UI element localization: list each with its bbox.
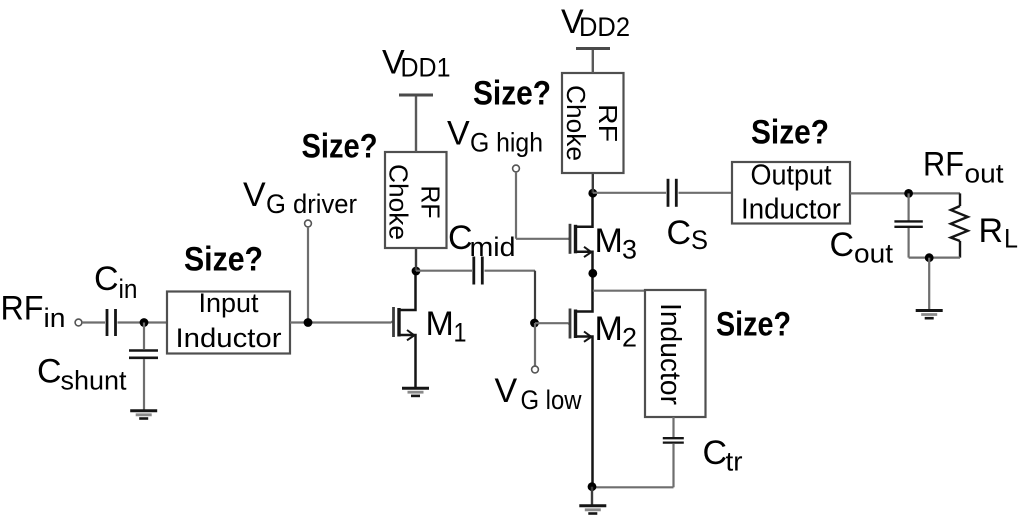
- wire Cmid to bend: [485, 270, 536, 272]
- svg-text:M: M: [595, 222, 623, 260]
- svg-text:R: R: [979, 212, 1004, 250]
- svg-text:mid: mid: [470, 232, 516, 262]
- label M1: [426, 305, 467, 348]
- wire Cshunt to ground: [143, 359, 145, 411]
- svg-text:G high: G high: [470, 127, 543, 157]
- wire Ctr to ground node: [592, 486, 674, 488]
- wire VG high down: [515, 172, 517, 239]
- svg-text:Choke: Choke: [384, 164, 414, 240]
- svg-text:V: V: [495, 372, 518, 410]
- wire output bottom rail: [909, 257, 960, 259]
- node input junction: [140, 318, 149, 327]
- label Cin: [94, 260, 138, 304]
- svg-text:V: V: [243, 176, 266, 214]
- wire Inductor to Ctr: [672, 417, 674, 437]
- label M2: [595, 310, 638, 353]
- wire VG driver: [307, 227, 309, 323]
- svg-text:2: 2: [622, 323, 637, 353]
- wire RF choke 2 to VDD2: [592, 49, 594, 73]
- wire Output Inductor to RL: [850, 192, 960, 194]
- wire RFin to Cin: [82, 321, 105, 323]
- ground M1: [402, 388, 429, 396]
- svg-text:RF: RF: [593, 104, 623, 142]
- capacitor CS: [668, 179, 676, 207]
- wire M1 drain to Cmid: [416, 270, 472, 272]
- wire VG high to M3 gate: [516, 238, 568, 240]
- node VG driver junction: [304, 318, 313, 327]
- svg-text:C: C: [667, 214, 692, 252]
- wire Cshunt top: [143, 323, 145, 350]
- box Output Inductor: [732, 160, 850, 226]
- svg-text:S: S: [691, 225, 708, 255]
- terminal VG low: [532, 366, 539, 373]
- svg-text:Choke: Choke: [561, 85, 591, 161]
- svg-text:DD1: DD1: [401, 53, 451, 83]
- capacitor Ctr: [663, 438, 684, 442]
- label CS: [667, 214, 709, 255]
- svg-text:Size?: Size?: [716, 306, 791, 344]
- label RL: [979, 212, 1019, 254]
- svg-text:in: in: [119, 274, 138, 304]
- box Inductor: [645, 290, 706, 417]
- svg-text:DD2: DD2: [579, 12, 630, 42]
- svg-text:out: out: [965, 159, 1005, 189]
- node bottom ground junction: [588, 482, 597, 491]
- svg-text:Inductor: Inductor: [741, 194, 841, 226]
- svg-text:shunt: shunt: [61, 366, 127, 396]
- label Size? inductor: [716, 306, 791, 344]
- label Size? output inductor: [751, 114, 829, 152]
- capacitor Cshunt: [129, 351, 158, 358]
- capacitor Cmid: [474, 257, 483, 285]
- label VG driver: [243, 176, 357, 219]
- power VDD2 bar: [576, 47, 610, 50]
- svg-text:Inductor: Inductor: [176, 323, 282, 353]
- svg-text:Output: Output: [751, 160, 832, 192]
- wire Ctr down: [672, 444, 674, 487]
- svg-text:G driver: G driver: [266, 189, 357, 219]
- node output ground junction: [925, 253, 934, 262]
- label M3: [595, 222, 638, 265]
- wire M2 drain to Inductor box: [593, 290, 645, 292]
- svg-text:Inductor: Inductor: [654, 303, 686, 405]
- transistor M2: [568, 273, 593, 487]
- capacitor Cout: [894, 221, 922, 226]
- box RF Choke 1: [384, 152, 447, 248]
- svg-text:out: out: [854, 239, 894, 269]
- svg-text:Size?: Size?: [473, 74, 551, 112]
- label VDD1: [382, 44, 451, 83]
- terminal VG driver: [305, 220, 312, 227]
- svg-text:V: V: [447, 115, 470, 153]
- label Ctr: [703, 434, 743, 477]
- wire M1 drain to RF choke 1: [415, 248, 417, 271]
- svg-text:Size?: Size?: [302, 128, 378, 166]
- transistor M3: [568, 193, 593, 273]
- label VG high: [447, 115, 543, 158]
- svg-text:1: 1: [454, 318, 467, 348]
- svg-text:C: C: [94, 260, 119, 298]
- node M3 source M2 drain: [588, 269, 597, 278]
- box Input Inductor: [167, 288, 290, 353]
- svg-text:RF: RF: [923, 146, 964, 184]
- wire output ground stub: [928, 258, 930, 311]
- box RF Choke 2: [561, 73, 624, 173]
- label Cshunt: [37, 353, 127, 396]
- label Cout: [830, 226, 894, 269]
- wire CS to Output Inductor: [679, 192, 733, 194]
- label RFin: [1, 290, 66, 334]
- svg-text:in: in: [44, 303, 66, 333]
- terminal VG high: [513, 165, 520, 172]
- port RFin terminal: [75, 319, 82, 326]
- label Size? RF choke 2: [473, 74, 551, 112]
- wire choke 2 to node: [592, 173, 594, 193]
- node RF choke 2 junction: [588, 189, 597, 198]
- svg-text:L: L: [1004, 224, 1018, 254]
- wire Cout bottom: [907, 228, 909, 258]
- ground output: [916, 311, 943, 319]
- svg-text:RF: RF: [1, 290, 44, 328]
- label Size? input inductor: [184, 241, 263, 279]
- svg-text:RF: RF: [416, 186, 446, 219]
- wire node to VG low terminal: [534, 323, 536, 366]
- wire Cin to input node: [118, 321, 169, 323]
- label Size? RF choke 1: [302, 128, 378, 166]
- node M1 drain: [412, 267, 421, 276]
- svg-text:Input: Input: [199, 288, 259, 318]
- capacitor Cin: [107, 309, 116, 336]
- resistor RL: [951, 193, 968, 257]
- svg-text:M: M: [595, 310, 623, 348]
- label Cmid: [448, 219, 516, 262]
- power VDD1 bar: [399, 94, 433, 97]
- label RFout: [923, 146, 1004, 189]
- wire node to M2 gate: [535, 322, 568, 324]
- ground bottom: [579, 506, 606, 514]
- ground input: [130, 411, 157, 419]
- wire bottom ground stub: [591, 487, 593, 506]
- wire node to CS: [593, 192, 666, 194]
- svg-text:3: 3: [622, 235, 637, 265]
- wire Cout top: [907, 193, 909, 220]
- svg-text:G low: G low: [521, 385, 582, 415]
- svg-text:C: C: [830, 226, 855, 264]
- node output junction: [904, 189, 913, 198]
- svg-text:tr: tr: [726, 447, 743, 477]
- svg-text:Size?: Size?: [184, 241, 263, 279]
- wire RF choke 1 to VDD1: [415, 96, 417, 153]
- wire bend down to VG low node: [534, 271, 536, 323]
- label VG low: [495, 372, 582, 415]
- wire Input Inductor to M1 gate: [290, 321, 391, 323]
- svg-text:Size?: Size?: [751, 114, 829, 152]
- node VG low junction: [530, 319, 539, 328]
- svg-text:C: C: [703, 434, 728, 472]
- svg-text:C: C: [37, 353, 62, 391]
- label VDD2: [561, 3, 630, 42]
- svg-text:M: M: [426, 305, 454, 343]
- transistor M1: [391, 271, 416, 388]
